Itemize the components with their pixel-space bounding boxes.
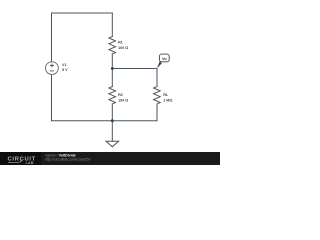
voltage source V1 [46, 62, 59, 75]
logo CircuitLab [8, 156, 36, 164]
wire top rail [52, 12, 113, 14]
svg-text:Vo: Vo [162, 56, 167, 61]
wire RL bottom lead [156, 104, 158, 121]
svg-text:http://circuitlab.com/c3ad757: http://circuitlab.com/c3ad757 [45, 157, 91, 161]
wire mid horizontal [112, 68, 157, 70]
wire R1 top lead [111, 13, 113, 37]
svg-text:194 Ω: 194 Ω [118, 98, 128, 102]
svg-text:100 Ω: 100 Ω [118, 46, 128, 50]
resistor RL [154, 87, 161, 105]
wire left branch lower [51, 75, 53, 121]
svg-text:1 MΩ: 1 MΩ [163, 98, 172, 102]
node junction mid [111, 67, 114, 70]
svg-text:V1: V1 [62, 63, 67, 67]
probe Vo [157, 54, 169, 68]
resistor R1 [109, 37, 116, 55]
wire RL top lead [156, 69, 158, 87]
wire left branch upper [51, 13, 53, 62]
watermark text [45, 154, 91, 162]
svg-text:R1: R1 [118, 41, 123, 45]
svg-text:R2: R2 [118, 93, 123, 97]
wire R1 bottom lead [111, 54, 113, 69]
svg-text:5 V: 5 V [62, 68, 68, 72]
svg-text:RL: RL [163, 93, 169, 97]
wire R2 bottom lead [111, 104, 113, 121]
svg-text:LAB: LAB [26, 161, 34, 165]
ground [111, 121, 113, 142]
resistor R2 [109, 87, 116, 105]
wire R2 top lead [111, 69, 113, 87]
wire bottom rail [52, 120, 158, 122]
node junction bottom [111, 119, 114, 122]
watermark bar [0, 152, 220, 165]
